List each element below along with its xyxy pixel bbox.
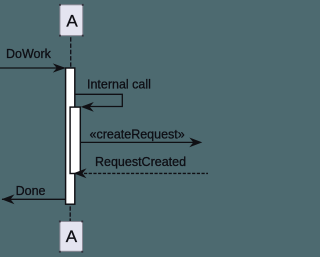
message createRequest arrowhead [189,138,202,148]
actor box A bottom corner ticks [59,221,83,253]
actor box A bottom [60,222,83,252]
activation bar main [66,68,75,204]
message createRequest line [81,141,194,143]
svg-text:«createRequest»: «createRequest» [90,128,185,142]
message Done arrowhead [2,194,15,204]
svg-text:RequestCreated: RequestCreated [95,155,186,169]
self message loop line [75,94,122,106]
svg-text:Internal call: Internal call [87,78,151,92]
svg-text:A: A [66,12,78,31]
svg-text:Done: Done [16,184,46,198]
message RequestCreated dashed line [84,172,208,174]
actor box A top corner ticks [59,4,84,37]
svg-text:A: A [66,227,78,246]
message RequestCreated arrowhead [74,168,87,178]
internal call arrowhead [81,102,94,112]
message Done line [2,198,65,200]
lifeline upper dashed segment [70,37,72,68]
message DoWork arrowhead [53,63,66,72]
lifeline lower dashed segment [69,206,71,221]
activation bar nested [70,107,80,173]
actor box A top [60,5,83,36]
message DoWork line [0,67,65,69]
svg-text:DoWork: DoWork [6,47,52,61]
